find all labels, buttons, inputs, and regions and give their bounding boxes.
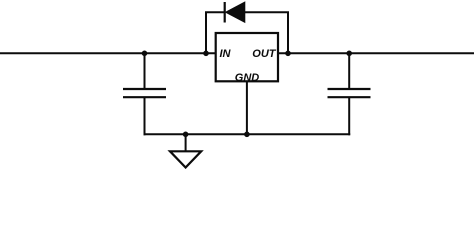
- wire: C2 top lead: [348, 53, 350, 89]
- wire: diode right leg (anode to OUT node): [245, 12, 288, 53]
- regulator U1 body: [216, 33, 278, 81]
- junction: ground rail / ground stem: [183, 132, 189, 138]
- wire: output rail (regulator OUT to right edge): [278, 52, 474, 54]
- wire: input rail (left edge to regulator IN): [0, 52, 216, 54]
- wire: diode left leg (IN node up and over): [206, 12, 225, 53]
- junction: IN node / diode tap: [203, 51, 209, 57]
- wire: C2 bottom lead: [348, 97, 350, 135]
- junction: C1 / input rail: [142, 51, 148, 57]
- diode D1 (cathode bar + filled triangle pointing left): [225, 2, 245, 23]
- svg-text:IN: IN: [220, 48, 232, 60]
- svg-text:OUT: OUT: [252, 48, 277, 60]
- ground symbol (open triangle): [170, 151, 201, 167]
- wire: C1 bottom lead: [144, 97, 146, 135]
- capacitor C1 plates: [123, 89, 166, 97]
- wire: ground rail (bottom): [144, 133, 351, 135]
- junction: ground rail / GND pin: [244, 132, 250, 138]
- wire: C1 top lead: [144, 53, 146, 89]
- junction: OUT node / diode tap: [285, 51, 291, 57]
- wire: GND pin lead: [246, 81, 248, 134]
- junction: C2 / output rail: [346, 51, 352, 57]
- wire: ground stem: [185, 134, 187, 151]
- capacitor C2 plates: [328, 89, 371, 97]
